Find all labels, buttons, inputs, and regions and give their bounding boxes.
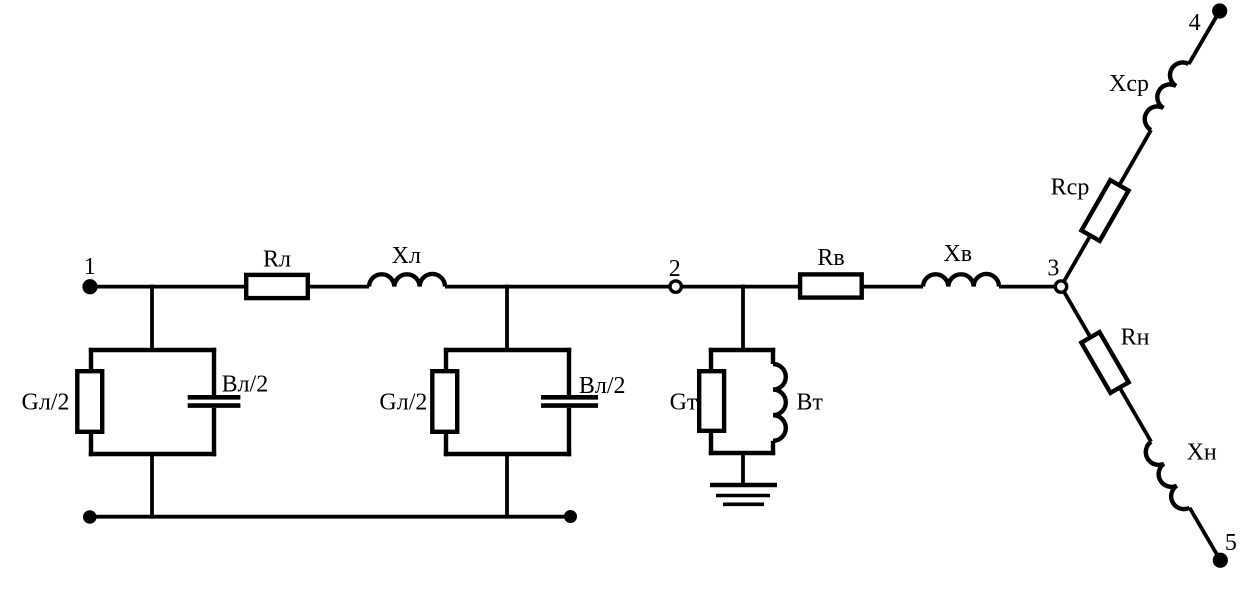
shunt block 2 loop bottom side — [444, 452, 571, 456]
svg-text:Gл/2: Gл/2 — [22, 390, 70, 416]
resistor Rl — [246, 275, 308, 298]
wire diagonal node3 to Xcp start — [1061, 130, 1151, 287]
svg-text:1: 1 — [84, 254, 96, 280]
shunt block 3 loop bottom side — [709, 451, 775, 455]
shunt block 3 loop left side lower — [709, 430, 713, 455]
resistor Gl/2 (block 2) — [432, 371, 457, 432]
shunt block 1 loop left side lower — [89, 430, 93, 456]
wire ground stem — [741, 451, 745, 485]
svg-text:Rв: Rв — [817, 245, 844, 271]
wire main rail left segment (node1 to Xl) — [90, 285, 369, 289]
svg-text:Gт: Gт — [670, 390, 698, 416]
wire shunt feed 2 bottom — [505, 452, 509, 517]
node 4 — [1212, 3, 1227, 18]
shunt block 3 loop right side lower stub — [771, 441, 775, 455]
wire Xn end to node5 — [1190, 508, 1221, 560]
ground symbol line 2 — [716, 494, 770, 498]
svg-text:3: 3 — [1047, 256, 1059, 282]
svg-text:Вл/2: Вл/2 — [579, 373, 626, 399]
svg-text:5: 5 — [1225, 530, 1237, 556]
resistor Gl/2 (block 1) — [77, 371, 102, 432]
junction dot bottom rail left — [83, 510, 97, 524]
svg-text:Хл: Хл — [392, 243, 421, 269]
inductor Xn (diagonal coil) — [1146, 442, 1190, 509]
wire shunt feed 1 bottom — [150, 452, 154, 517]
capacitor Bl/2 (block 2) plate 1 — [541, 395, 598, 400]
shunt block 2 loop right side upper — [567, 348, 571, 395]
wire main rail right segment (Xv end to node3) — [999, 285, 1057, 289]
shunt block 2 loop right side lower — [567, 408, 571, 456]
shunt block 2 loop left side upper — [444, 348, 448, 373]
capacitor Bl/2 (block 2) plate 2 — [541, 403, 598, 408]
svg-text:Вл/2: Вл/2 — [222, 372, 269, 398]
shunt block 1 loop right side lower — [212, 408, 216, 456]
wire Xcp end to node4 — [1189, 11, 1220, 64]
resistor Rn (rotated) — [1081, 332, 1128, 393]
svg-text:Хв: Хв — [943, 241, 972, 267]
shunt block 1 loop top side — [89, 348, 216, 352]
shunt block 3 loop left side upper — [709, 348, 713, 373]
wire shunt feed 2 top — [505, 285, 509, 352]
svg-text:Хн: Хн — [1187, 440, 1217, 466]
node 5 — [1213, 553, 1228, 568]
inductor Bt (vertical coil) — [773, 364, 786, 441]
svg-text:4: 4 — [1189, 10, 1201, 36]
resistor Gt — [699, 371, 724, 431]
ground symbol line 3 — [723, 502, 764, 506]
svg-text:Rл: Rл — [263, 247, 291, 273]
wire diagonal node3 to Rn and Xn start — [1061, 287, 1151, 442]
junction dot bottom rail right — [564, 510, 577, 523]
inductor Xl — [369, 274, 445, 287]
shunt block 2 loop left side lower — [444, 430, 448, 456]
capacitor Bl/2 (block 1) plate 1 — [188, 395, 241, 400]
svg-text:Вт: Вт — [796, 390, 823, 416]
svg-text:Хср: Хср — [1109, 71, 1149, 97]
shunt block 3 loop right side upper stub — [771, 348, 775, 364]
node 1 — [82, 279, 97, 294]
shunt block 3 (Gt/Bt) loop top side — [709, 348, 775, 352]
node 3 — [1055, 281, 1066, 292]
inductor Xcp (diagonal coil) — [1145, 62, 1189, 130]
capacitor Bl/2 (block 1) plate 2 — [188, 403, 241, 408]
svg-text:Rср: Rср — [1051, 175, 1090, 201]
resistor Rv — [800, 274, 862, 297]
inductor Xv — [923, 274, 999, 287]
resistor Rcp (rotated) — [1081, 180, 1128, 241]
wire bottom rail — [90, 515, 571, 519]
ground symbol line 1 — [710, 483, 777, 487]
node 2 — [670, 281, 681, 292]
shunt block 2 loop top side — [444, 348, 571, 352]
svg-text:Rн: Rн — [1121, 325, 1150, 351]
svg-text:2: 2 — [669, 256, 681, 282]
shunt block 1 loop right side upper — [212, 348, 216, 395]
wire shunt feed 1 top — [150, 285, 154, 352]
svg-text:Gл/2: Gл/2 — [379, 390, 427, 416]
wire main rail middle segment (Xl end to Xv start) — [445, 285, 923, 289]
wire shunt feed 3 (to Gt/Bt block) — [741, 285, 745, 352]
shunt block 1 loop left side upper — [89, 348, 93, 373]
shunt block 1 loop bottom side — [89, 452, 216, 456]
